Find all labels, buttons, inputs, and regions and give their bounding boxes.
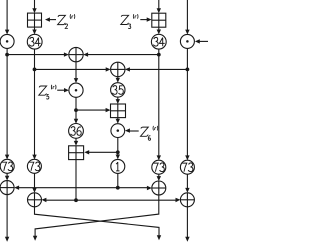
node label 73 (fourth) [180,160,194,174]
multiplier U1 (X1 x Z1) [0,34,14,48]
junction node C [157,53,161,57]
adder box A2 (X3 + Z3) [152,13,166,27]
wire node G to xor X6 [76,198,180,202]
wire input X4 top [185,0,189,35]
key Z4 arrow from right edge [195,39,208,43]
wire circle 36 to adder box A4 [74,138,78,146]
node label 1 [111,159,125,173]
wire node D down to circle 73 [185,69,189,160]
wire U6 output to node F [117,138,119,153]
wire node E to adder box A3 [76,108,111,112]
wire input X3 top [157,0,161,13]
multiplier U6 (Z6) [111,124,125,138]
node label 73 (second) [27,159,41,173]
wire X4 output crossing to position 3 [35,207,162,240]
wire A1 output to circle 34 [32,27,36,34]
node label 73 (third) [152,160,166,174]
wire X5 output crossing to position 2 [33,195,159,241]
wire A4 output to node G [75,160,77,201]
wire circle 73 to xor [157,174,161,181]
wire node F down to circle 1 [116,152,120,159]
junction node F [116,150,120,154]
wire circle 1 to node H [117,173,119,187]
wire U5 output to node E [75,97,77,110]
junction node E [74,108,78,112]
wire node C down to circle 73 [157,55,161,161]
wire circle 73 down to xor [185,174,189,193]
wire node A down to circle 73 [5,55,9,160]
multiplier U4 (X4 x Z4) [180,34,194,48]
wire circle 34 to node C [158,49,160,55]
wire node F to adder box A4 [84,150,118,154]
node label 73 (first) [0,159,14,173]
wire circle 35 to adder box A3 [116,97,120,104]
junction node G [74,198,78,202]
multiplier U5 (Z5) [69,83,83,97]
junction node H [116,186,120,190]
wire node B down to circle 73 [32,69,36,159]
xor gate X6 [180,193,194,207]
adder box A1 (X2 + Z2) [28,13,42,27]
xor gate X3 (output W1) [0,181,14,195]
wire X1 output to multiplier U5 [74,62,78,83]
wire circle 73 to xor [5,173,9,180]
wire node E down to circle 36 [74,110,78,124]
wire U4 output to node D [186,48,188,69]
wire U1 output to node [6,48,8,54]
node label 35 [111,83,125,97]
xor gate X5 [152,181,166,195]
node label 34 (first) [27,34,42,49]
xor gate X4 [28,193,42,207]
key Z6 label and arrow [125,126,158,140]
wire input X1 top [5,0,9,35]
node label 34 (second) [151,34,166,49]
xor gate X1 (p1 xor p3) [69,47,83,61]
key Z5 label and arrow [39,85,69,99]
wire node A to xor X1 [7,52,69,56]
key Z2 label and arrow [45,14,75,28]
adder box A3 (t0 + q) [111,104,126,118]
wire node C to xor X1 [83,52,159,56]
junction node A [5,53,9,57]
wire circle 73 down to xor [32,173,36,193]
wire A2 output to circle 34 [157,27,161,34]
node label 36 [69,123,84,138]
junction node D [186,68,190,72]
xor gate X2 (p2 xor p4) [111,62,125,76]
wire circle 34 to node B [34,49,36,69]
wire A3 output to multiplier U6 [116,118,120,124]
wire node H to xor X3 [14,186,118,190]
wire node H to xor X5 [118,186,152,190]
key Z3 label and arrow [121,14,152,29]
wire node G to xor X4 [42,198,77,202]
wire output W4 arrow [185,207,189,242]
wire input X2 top [32,0,36,13]
adder box A4 (t0 + t1) [69,146,84,160]
junction node B [33,68,37,72]
wire node D to xor X2 [125,67,187,71]
wire node B to xor X2 [35,67,111,71]
wire X2 output to circle 35 [116,77,120,83]
wire output W1 arrow [5,195,9,242]
